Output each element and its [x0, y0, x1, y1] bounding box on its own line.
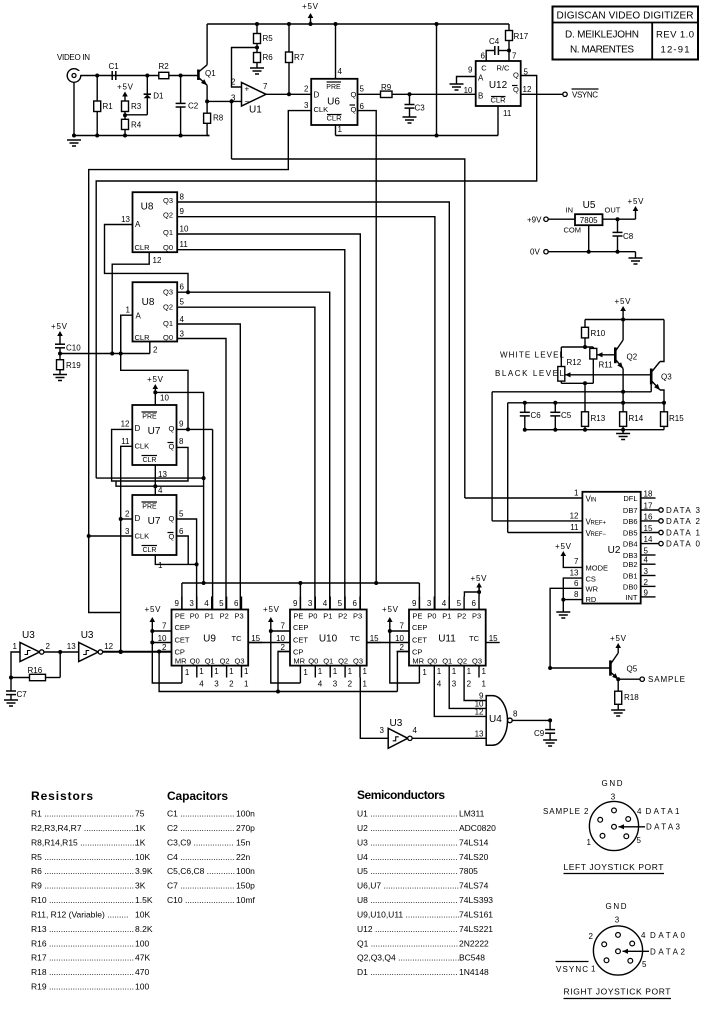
PE riser U11	[418, 583, 420, 610]
svg-text:9: 9	[293, 599, 298, 608]
wire U6 pin1 CLR down	[335, 125, 337, 136]
svg-text:1K: 1K	[135, 823, 146, 833]
node COM	[587, 250, 591, 254]
wire U7a D loop from Qbar	[112, 429, 188, 481]
wire U8a Q0 to U10.P2 riser	[177, 250, 345, 610]
svg-text:PE: PE	[412, 612, 422, 621]
svg-text:CEP: CEP	[412, 623, 427, 632]
svg-text:6: 6	[179, 527, 184, 536]
svg-text:6: 6	[180, 283, 185, 292]
svg-text:5: 5	[457, 599, 462, 608]
svg-text:2: 2	[467, 680, 472, 689]
svg-text:DIGISCAN VIDEO DIGITIZER: DIGISCAN VIDEO DIGITIZER	[557, 11, 694, 22]
U9 top pin 5	[226, 597, 228, 610]
ground C9	[543, 739, 557, 741]
pin hole 5	[628, 958, 633, 963]
pin hole 4	[630, 941, 635, 946]
svg-text:CP: CP	[412, 648, 422, 657]
svg-text:RIGHT JOYSTICK PORT: RIGHT JOYSTICK PORT	[564, 987, 671, 997]
svg-text:1: 1	[318, 667, 323, 676]
svg-text:1: 1	[13, 642, 18, 651]
U6 74LS74 box	[311, 79, 357, 125]
svg-text:2: 2	[589, 932, 594, 941]
svg-text:12-91: 12-91	[661, 45, 690, 56]
svg-text:R16: R16	[28, 666, 43, 675]
svg-text:4: 4	[413, 726, 418, 735]
svg-text:2: 2	[584, 807, 589, 816]
svg-text:R6 ...........................: R6 .....................................…	[31, 866, 134, 876]
svg-text:DB6: DB6	[623, 517, 638, 526]
transistor Q5	[609, 660, 612, 675]
svg-text:15: 15	[370, 634, 379, 643]
svg-text:7805: 7805	[459, 866, 478, 876]
U9 CET tie	[152, 642, 171, 644]
wire U7b D pin2	[121, 518, 133, 520]
svg-text:C10: C10	[66, 344, 81, 353]
resistor R18	[617, 679, 619, 691]
svg-text:LEFT JOYSTICK PORT: LEFT JOYSTICK PORT	[564, 862, 664, 872]
svg-text:+9V: +9V	[527, 216, 542, 225]
svg-text:3: 3	[644, 567, 649, 576]
title block border	[553, 7, 699, 60]
PE riser U10	[298, 581, 302, 585]
svg-text:D1: D1	[153, 92, 164, 101]
svg-text:CLR: CLR	[142, 457, 156, 464]
capacitor C1	[111, 71, 113, 80]
svg-text:10K: 10K	[135, 909, 150, 919]
wire gnd stub level	[622, 430, 624, 434]
node R13 riser top	[583, 381, 587, 385]
node C10/R19	[58, 352, 62, 356]
wire U12 Qbar pin12 to VSYNC	[521, 93, 563, 95]
svg-text:P3: P3	[235, 612, 244, 621]
svg-text:+5V: +5V	[382, 605, 399, 614]
svg-text:Q0: Q0	[308, 657, 318, 666]
svg-text:BLACK LEVEL: BLACK LEVEL	[495, 369, 565, 378]
svg-text:1: 1	[199, 667, 204, 676]
svg-text:1: 1	[333, 667, 338, 676]
svg-text:U2 ...........................: U2 .....................................	[357, 823, 458, 833]
+5V arrow MODE	[562, 554, 564, 560]
svg-text:150p: 150p	[236, 881, 255, 891]
svg-text:3: 3	[452, 680, 457, 689]
svg-text:R10 ..........................: R10 ....................................	[31, 895, 134, 905]
resistor R6	[256, 48, 258, 53]
svg-text:4: 4	[442, 599, 447, 608]
U10 TC pin	[367, 642, 381, 644]
node R16 left	[9, 676, 13, 680]
svg-text:4: 4	[158, 486, 163, 495]
svg-text:1: 1	[422, 668, 427, 677]
svg-text:U3: U3	[81, 630, 94, 641]
svg-text:DB1: DB1	[623, 572, 638, 581]
wire U11.Q2 to U4 pin9	[464, 678, 486, 701]
node bottom R14	[621, 428, 625, 432]
svg-text:U9: U9	[203, 634, 216, 645]
wire VREF+ riser	[491, 392, 493, 521]
wire VREF+	[492, 520, 582, 522]
svg-text:1: 1	[244, 667, 249, 676]
U10 CP riser	[278, 652, 290, 692]
svg-text:1: 1	[229, 667, 234, 676]
svg-text:P0: P0	[427, 612, 436, 621]
svg-text:CP: CP	[293, 648, 303, 657]
svg-text:R19: R19	[66, 361, 81, 370]
resistor R9	[381, 91, 393, 97]
svg-text:15: 15	[489, 634, 498, 643]
svg-text:PRE: PRE	[142, 504, 157, 511]
svg-text:U8: U8	[142, 297, 155, 308]
U10 +5V feed	[270, 620, 272, 626]
U2 ADC0820 box	[582, 492, 640, 604]
svg-text:Q2: Q2	[163, 303, 173, 312]
counter U10 box	[290, 610, 367, 666]
wire VIN	[465, 497, 583, 499]
svg-text:5: 5	[637, 836, 642, 845]
svg-text:U2: U2	[608, 545, 621, 556]
U11 CP riser	[397, 652, 409, 692]
wire U3a input loop	[11, 652, 20, 678]
ground level shifter	[616, 433, 630, 435]
svg-text:C1: C1	[109, 62, 120, 71]
wire opamp minus input	[207, 100, 241, 102]
svg-text:P3: P3	[472, 612, 481, 621]
svg-text:DATA 2: DATA 2	[666, 517, 701, 526]
svg-text:6: 6	[472, 599, 477, 608]
svg-text:4: 4	[204, 599, 209, 608]
svg-text:1.5K: 1.5K	[135, 895, 153, 905]
resistor R19	[59, 354, 61, 360]
node U3a-U3b	[58, 650, 62, 654]
svg-text:74LS393: 74LS393	[459, 895, 493, 905]
node C2 top	[179, 74, 183, 78]
svg-text:P0: P0	[190, 612, 199, 621]
resistor R4	[122, 119, 129, 129]
pin hole c	[612, 824, 617, 829]
node opamp pin3 tap	[230, 99, 234, 103]
svg-text:CP: CP	[175, 648, 185, 657]
svg-text:C8: C8	[623, 232, 634, 241]
svg-text:8: 8	[180, 193, 185, 202]
wire U3a out	[44, 651, 79, 653]
U11 top pin 9	[418, 597, 420, 610]
wire U7b pin4 stub	[154, 486, 156, 495]
svg-text:R14: R14	[629, 414, 644, 423]
svg-text:CLR: CLR	[134, 333, 150, 342]
svg-text:10: 10	[158, 634, 167, 643]
svg-text:C: C	[481, 64, 487, 73]
U7 second box	[132, 495, 176, 555]
+5V arrow U11 P2P3	[478, 586, 480, 592]
svg-text:Q1: Q1	[442, 657, 452, 666]
svg-text:Q: Q	[169, 532, 175, 541]
node x96 line join	[202, 476, 206, 480]
svg-text:+5V: +5V	[51, 322, 68, 331]
svg-text:10: 10	[276, 634, 285, 643]
capacitor C10	[59, 340, 61, 344]
svg-text:CLR: CLR	[134, 243, 150, 252]
svg-text:6: 6	[360, 102, 365, 111]
svg-text:12: 12	[104, 642, 113, 651]
svg-text:CEP: CEP	[293, 623, 308, 632]
svg-text:DATA 3: DATA 3	[666, 506, 701, 515]
ground C7	[4, 699, 18, 701]
svg-text:Q1: Q1	[205, 69, 216, 78]
U9 MR pin stub	[181, 666, 183, 683]
svg-text:Q1: Q1	[323, 657, 333, 666]
pin hole 3	[616, 933, 621, 938]
svg-text:1: 1	[467, 667, 472, 676]
capacitor C6	[523, 401, 527, 405]
svg-text:R8: R8	[213, 114, 224, 123]
svg-text:U9,U10,U11 ...................: U9,U10,U11 .......................	[357, 909, 460, 919]
wire U6 Q to R9	[358, 93, 381, 95]
svg-text:A: A	[136, 312, 142, 321]
node CLR riser	[435, 134, 439, 138]
svg-text:U8: U8	[141, 202, 154, 213]
node U8b Q3 join	[186, 290, 190, 294]
node U7b D on clk net	[119, 517, 123, 521]
node main-gnd	[72, 134, 76, 138]
node C3	[408, 92, 412, 96]
PE line	[182, 582, 420, 584]
svg-text:10: 10	[160, 394, 169, 403]
svg-text:TC: TC	[232, 634, 243, 643]
+5V R3	[124, 95, 126, 101]
svg-text:CEP: CEP	[175, 623, 190, 632]
+5V rail top	[207, 23, 509, 25]
svg-text:CET: CET	[175, 636, 190, 645]
wire Q5 base	[550, 667, 610, 669]
svg-text:R4: R4	[131, 121, 142, 130]
svg-text:Q3: Q3	[661, 373, 672, 382]
svg-text:CLK: CLK	[135, 532, 150, 541]
svg-text:C5: C5	[561, 411, 572, 420]
node C8 bottom	[616, 250, 620, 254]
wire D1 to R3R4 node	[125, 114, 147, 116]
wire black node line	[508, 402, 664, 404]
svg-text:3: 3	[304, 101, 309, 110]
svg-text:DATA0: DATA0	[650, 931, 686, 940]
wire CP under-route	[159, 652, 397, 692]
pin hole 3	[612, 808, 617, 813]
resistor R14	[622, 403, 624, 412]
svg-text:REV 1.0: REV 1.0	[656, 30, 694, 41]
DATA2 arrow	[623, 949, 629, 954]
svg-text:D1 ...........................: D1 .....................................	[357, 967, 458, 977]
svg-text:R7: R7	[294, 53, 305, 62]
node PE U6Qbar	[374, 581, 378, 585]
svg-text:8.2K: 8.2K	[135, 924, 153, 934]
wire PRE/+5V line 2	[116, 481, 204, 486]
resistor R10	[584, 320, 586, 328]
svg-text:P1: P1	[205, 612, 214, 621]
wire Q3 emitter down	[660, 390, 664, 403]
svg-text:74LS20: 74LS20	[459, 852, 489, 862]
node bottom R13	[583, 428, 587, 432]
svg-text:R9: R9	[381, 83, 392, 92]
svg-text:7: 7	[263, 82, 268, 91]
ground	[67, 139, 81, 141]
svg-text:10: 10	[180, 225, 189, 234]
svg-text:DATA2: DATA2	[650, 948, 686, 957]
svg-text:CS: CS	[586, 575, 596, 584]
svg-text:MR: MR	[293, 657, 305, 666]
svg-text:CLK: CLK	[135, 442, 150, 451]
wire connector ground trunk	[73, 82, 75, 135]
svg-text:Q0: Q0	[427, 657, 437, 666]
svg-text:Q2: Q2	[627, 353, 638, 362]
svg-text:R18 ..........................: R18 ....................................	[31, 967, 134, 977]
svg-text:Q0: Q0	[163, 243, 173, 252]
pin hole 1	[604, 958, 609, 963]
svg-text:10mf: 10mf	[236, 895, 256, 905]
wire R16 to U3a out	[59, 652, 61, 678]
wire U10.Q3 to U3c input	[360, 678, 388, 739]
svg-text:12: 12	[570, 512, 579, 521]
wire Q3 base leg	[650, 384, 652, 391]
svg-text:74LS161: 74LS161	[459, 909, 493, 919]
svg-text:Q: Q	[169, 514, 175, 523]
U5 7805 box	[575, 214, 603, 225]
resistor R17	[508, 24, 510, 31]
+5V arrow main rail	[310, 16, 312, 22]
svg-text:74LS14: 74LS14	[459, 837, 489, 847]
svg-text:5: 5	[644, 547, 649, 556]
U11 top pin 5	[463, 597, 465, 610]
wire U8b Q0 to U9.P2 riser	[177, 339, 226, 610]
svg-text:R17 ..........................: R17 ....................................	[31, 953, 134, 963]
ground R19	[53, 374, 67, 376]
wire R12 bottom line	[561, 382, 593, 384]
R12 left leg	[560, 347, 562, 367]
svg-text:1: 1	[126, 306, 131, 315]
U8 second half box	[133, 282, 178, 341]
svg-text:2: 2	[348, 680, 353, 689]
svg-text:R16 ..........................: R16 ....................................	[31, 938, 134, 948]
U10 Q stubs	[314, 666, 316, 678]
svg-text:1: 1	[185, 668, 190, 677]
U11 CP pin	[397, 651, 410, 653]
level bottom line	[525, 429, 664, 431]
node U7a CLR on PRE line	[153, 484, 157, 488]
node R7 bottom	[287, 92, 291, 96]
svg-text:TC: TC	[350, 634, 361, 643]
svg-text:3: 3	[615, 916, 620, 925]
svg-text:PE: PE	[293, 612, 303, 621]
svg-text:5: 5	[179, 510, 184, 519]
U10 TC to U11 CET	[367, 642, 409, 644]
svg-text:4: 4	[323, 599, 328, 608]
wire U7a Q to U9.P1 riser	[212, 429, 214, 609]
svg-text:11: 11	[180, 240, 189, 249]
svg-text:REF−: REF−	[591, 532, 607, 538]
svg-text:MODE: MODE	[586, 564, 609, 573]
resistor R8	[206, 101, 208, 113]
svg-text:GND: GND	[602, 779, 623, 788]
svg-text:PE: PE	[175, 612, 185, 621]
svg-text:9: 9	[468, 66, 473, 75]
svg-text:3: 3	[333, 680, 338, 689]
wire U7b CLK pin3 from clock spine	[89, 535, 133, 537]
U9 TC to U10 CET	[248, 642, 290, 644]
counter U11 box	[409, 610, 486, 666]
wire Q2 collector	[622, 320, 624, 341]
svg-text:RD: RD	[586, 595, 597, 604]
svg-text:R11, R12 (Variable) .........: R11, R12 (Variable) .........	[31, 909, 128, 919]
U9 CEP pin	[152, 630, 171, 632]
wire Q3 collector up	[660, 320, 664, 362]
svg-text:8: 8	[179, 437, 184, 446]
svg-text:11: 11	[503, 109, 512, 118]
svg-text:Q2: Q2	[338, 657, 348, 666]
node R5-R6	[255, 46, 259, 50]
node PE x203	[202, 581, 206, 585]
svg-text:+5V: +5V	[628, 197, 645, 206]
svg-text:4: 4	[338, 67, 343, 76]
svg-text:SAMPLE: SAMPLE	[543, 807, 580, 816]
svg-text:C3: C3	[415, 104, 426, 113]
wire U12 Q pin5 down-long	[96, 76, 537, 479]
svg-text:+5V: +5V	[145, 605, 162, 614]
ground U2	[556, 611, 570, 613]
resistor R7	[288, 24, 290, 52]
wire VREF-	[508, 532, 583, 534]
wire R13 riser	[584, 383, 586, 392]
svg-text:P1: P1	[442, 612, 451, 621]
U8 first half box	[133, 192, 178, 252]
VSYNC terminal	[563, 92, 567, 96]
svg-text:Q: Q	[513, 71, 519, 80]
node Q1 emitter/R8	[205, 99, 209, 103]
node Q5 emitter	[616, 677, 620, 681]
wire U4 output	[512, 719, 550, 721]
wire U8b Q3 to U10.P1 riser	[177, 292, 330, 609]
svg-text:74LS74: 74LS74	[459, 881, 489, 891]
node U4 out / WR / C9	[548, 718, 552, 722]
svg-text:10: 10	[464, 86, 473, 95]
svg-text:U7: U7	[148, 516, 161, 527]
resistor R2	[159, 72, 169, 78]
svg-text:22n: 22n	[236, 852, 250, 862]
transistor Q1	[197, 70, 200, 81]
ground R6	[250, 67, 264, 69]
svg-text:DB2: DB2	[623, 560, 638, 569]
node Q5 base tap	[548, 666, 552, 670]
svg-text:9: 9	[179, 420, 184, 429]
svg-text:12: 12	[475, 708, 484, 717]
U9 top pin 3	[196, 597, 198, 610]
svg-text:R18: R18	[624, 693, 639, 702]
svg-text:1: 1	[482, 667, 487, 676]
wire U6 CLK route	[89, 111, 312, 536]
U9 TC pin	[248, 642, 262, 644]
U10 top pin 5	[344, 597, 346, 610]
wire R9 to U12 B	[392, 93, 476, 95]
transistor Q2	[614, 347, 617, 363]
connector J1 VIDEO IN	[67, 69, 81, 83]
svg-text:3: 3	[611, 793, 616, 802]
svg-text:LM311: LM311	[459, 809, 485, 819]
svg-text:U3: U3	[390, 718, 403, 729]
svg-text:7: 7	[574, 557, 579, 566]
wire U8b Q2 to U10.P0 riser	[177, 307, 315, 609]
resistor R16	[11, 677, 30, 679]
ground R18	[611, 709, 625, 711]
svg-text:U4: U4	[489, 714, 502, 725]
wire U8a Q2 to U11.P0 riser	[177, 217, 435, 610]
title divider h	[553, 22, 699, 24]
